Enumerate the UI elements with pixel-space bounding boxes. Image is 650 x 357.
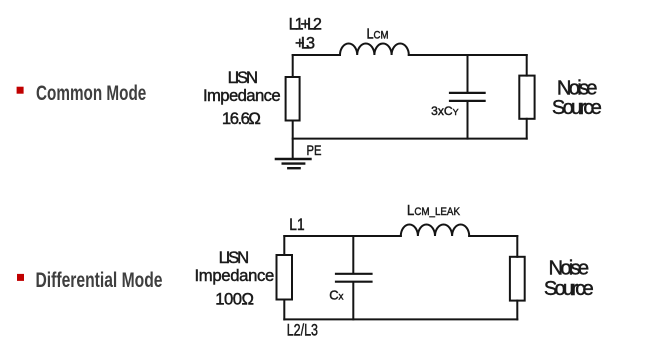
- wire: DM right vertical above noise source: [516, 236, 518, 257]
- wire: DM left vertical below resistor: [283, 300, 285, 320]
- svg-text:LISN: LISN: [219, 248, 250, 267]
- wire: CM capacitor branch upper: [467, 55, 469, 92]
- inductor LCM: [340, 43, 409, 55]
- resistor: LISN impedance 16.6 ohm: [286, 77, 300, 121]
- resistor: DM noise source: [510, 257, 525, 301]
- svg-text:L1+L2: L1+L2: [289, 15, 322, 33]
- svg-text:L1: L1: [289, 216, 304, 234]
- svg-text:Common Mode: Common Mode: [36, 80, 146, 105]
- resistor: LISN impedance 100 ohm: [277, 255, 293, 300]
- svg-text:LCM: LCM: [367, 27, 389, 43]
- svg-text:Source: Source: [544, 278, 594, 300]
- svg-text:16.6Ω: 16.6Ω: [222, 109, 261, 128]
- svg-text:Noise: Noise: [557, 77, 598, 99]
- capacitor 3xCY: [450, 93, 485, 101]
- label: LISN Impedance 16.6 ohm: [203, 68, 281, 128]
- inductor LCM_LEAK: [401, 225, 469, 237]
- wire: DM top rail right segment: [469, 235, 517, 237]
- label: LISN Impedance 100 ohm: [195, 248, 275, 308]
- svg-text:PE: PE: [307, 142, 322, 158]
- wire: DM capacitor branch upper: [352, 236, 354, 273]
- wire: CM right vertical below noise source: [526, 119, 528, 139]
- svg-text:L2/L3: L2/L3: [287, 321, 318, 339]
- bullet: Common Mode: [17, 87, 24, 94]
- svg-text:LCM_LEAK: LCM_LEAK: [407, 202, 461, 219]
- wire: DM bottom rail (L2/L3): [284, 318, 517, 320]
- resistor: CM noise source: [519, 76, 534, 119]
- wire: CM right vertical above noise source: [526, 55, 528, 76]
- svg-text:Impedance: Impedance: [203, 86, 281, 105]
- svg-text:3xCY: 3xCY: [431, 106, 459, 118]
- svg-text:Differential Mode: Differential Mode: [36, 267, 163, 292]
- wire: DM capacitor branch lower: [352, 283, 354, 320]
- text: Noise Source (CM): [552, 77, 602, 119]
- wire: CM left vertical above LISN resistor: [292, 55, 294, 77]
- svg-text:Source: Source: [552, 97, 602, 119]
- svg-text:Cx: Cx: [329, 287, 343, 302]
- wire: CM capacitor branch lower: [467, 102, 469, 139]
- wire: DM top rail left segment (L1): [284, 235, 401, 237]
- wire: CM top rail right segment (LCM to noise source): [409, 54, 527, 56]
- svg-text:Noise: Noise: [549, 257, 590, 279]
- wire: DM left vertical above LISN resistor: [283, 236, 285, 255]
- svg-text:100Ω: 100Ω: [215, 289, 254, 308]
- text: Noise Source (DM): [544, 257, 594, 299]
- svg-text:Impedance: Impedance: [195, 266, 275, 285]
- wire: CM top rail left segment (L1+L2+L3 to LCM): [293, 54, 340, 56]
- svg-text:LISN: LISN: [228, 68, 258, 87]
- ground PE: [276, 159, 311, 168]
- wire: CM bottom rail: [293, 138, 527, 140]
- svg-text:+L3: +L3: [295, 35, 315, 53]
- wire: DM right vertical below noise source: [516, 301, 518, 320]
- wire: CM left vertical below resistor to ground: [292, 121, 294, 159]
- label: node L1+L2+L3: [289, 15, 322, 52]
- capacitor CX: [336, 274, 372, 282]
- bullet: Differential Mode: [17, 274, 24, 281]
